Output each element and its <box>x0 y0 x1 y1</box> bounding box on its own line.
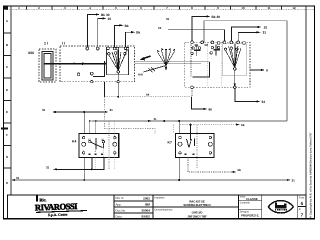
top zone numbers <box>18 6 296 10</box>
svg-text:App.: App. <box>116 203 122 207</box>
mechanical link hatching <box>149 67 156 72</box>
junction bus K4 b <box>95 120 97 122</box>
svg-text:C: C <box>6 65 9 69</box>
K7 feed wire from bus <box>178 121 180 134</box>
wire rotary pin to label 3 <box>115 25 120 47</box>
svg-text:1: 1 <box>95 150 97 153</box>
junction bus K4 a <box>89 120 91 122</box>
svg-text:A: A <box>6 19 9 23</box>
switch lower terminal circle b <box>90 72 93 75</box>
S2 wiper main arm <box>234 44 236 68</box>
arrow top label 4 <box>131 31 135 33</box>
junction wire31 <box>83 111 85 113</box>
svg-text:X06: X06 <box>28 51 34 55</box>
S2 internal L wire <box>193 62 210 77</box>
svg-text:5/6/02: 5/6/02 <box>141 215 150 219</box>
rotary wiper main arm <box>117 50 119 71</box>
S2 internal divider b <box>220 44 222 87</box>
K7 contact v <box>189 139 192 148</box>
K7 coil bar <box>194 139 196 147</box>
S2 internal dotted vertical <box>190 45 192 77</box>
gray return wire long <box>204 21 287 121</box>
S2 top terminal circles <box>191 41 246 45</box>
K4 dotted internal drop a <box>108 122 110 170</box>
indicator bold middle arrow <box>165 51 167 68</box>
S2 bottom node left <box>191 86 194 89</box>
info values column <box>141 197 150 219</box>
svg-text:2002: 2002 <box>143 197 150 201</box>
svg-text:15: 15 <box>108 17 112 21</box>
svg-text:CLASSE: CLASSE <box>246 197 258 201</box>
svg-text:Data: Data <box>116 215 122 219</box>
bold position arrowhead <box>140 57 145 61</box>
connector X06 dashed enclosure <box>39 49 56 82</box>
svg-text:31: 31 <box>16 176 20 180</box>
rotary wiper fan <box>109 50 127 71</box>
svg-text:E: E <box>6 110 8 114</box>
coupling bus line lower <box>135 63 187 65</box>
K4 mounting hole left <box>82 142 86 146</box>
denomination cell text <box>187 211 207 219</box>
K7 mounting hole left <box>178 142 182 146</box>
svg-text:11: 11 <box>267 6 271 10</box>
K4 blade <box>91 142 103 147</box>
K4 bottom pin marks <box>88 154 103 156</box>
svg-text:SCHEMA ELETTRICO: SCHEMA ELETTRICO <box>183 203 211 207</box>
svg-text:a b: a b <box>195 45 199 48</box>
left zone ticks <box>4 33 12 168</box>
junction on bus <box>163 120 165 122</box>
rotary section inner box <box>107 47 129 75</box>
svg-text:K4: K4 <box>72 140 76 144</box>
svg-text:31: 31 <box>46 165 50 169</box>
svg-text:54: 54 <box>262 100 266 104</box>
K7 blade contact <box>187 139 190 148</box>
K7 bottom dotted wire to arrow <box>188 158 233 173</box>
arrow wire 169 <box>53 168 57 170</box>
node under terminal b <box>91 81 93 83</box>
junction bus K7 <box>178 120 180 122</box>
svg-text:31: 31 <box>166 17 170 21</box>
S2 internal bus stub upper <box>185 61 210 63</box>
junction dotted K7 <box>190 124 192 126</box>
svg-text:31: 31 <box>263 31 267 35</box>
title block outline <box>8 195 307 219</box>
left zone letters <box>6 19 9 185</box>
svg-text:© Copyright by R.R. of fa So: © Copyright by R.R. of fa Societa AMNSHN… <box>310 132 313 218</box>
arrow top label 3 <box>120 24 124 26</box>
K4 contact circles <box>89 140 105 142</box>
connector X06 body <box>42 52 53 81</box>
top zone ticks <box>27 6 282 10</box>
svg-text:Bk: Bk <box>125 24 129 28</box>
double arrow wire 31 <box>56 111 105 113</box>
svg-text:BM: BM <box>145 203 150 207</box>
S2 fan inner frame <box>223 44 247 76</box>
svg-text:30004: 30004 <box>141 209 150 213</box>
dotted wire lower run <box>105 96 161 98</box>
wiper output wire <box>117 73 119 82</box>
svg-text:31: 31 <box>154 117 158 121</box>
arrow dotted branch <box>236 124 240 126</box>
K4 socket dashed outline <box>105 97 156 134</box>
svg-text:Folio: Folio <box>299 197 305 200</box>
wire from inner box to terminal b <box>93 61 105 77</box>
rotary wiper pivot <box>117 70 120 73</box>
K4 dotted internal drop b <box>114 122 116 170</box>
approvals cells <box>240 196 260 218</box>
long gray ground bus <box>15 179 287 181</box>
svg-text:Controllo: Controllo <box>240 202 251 205</box>
wire to right label b <box>238 32 257 41</box>
S2 contact group 2 pin label <box>205 44 208 45</box>
arrow right mid <box>261 69 265 71</box>
svg-text:12: 12 <box>292 6 296 10</box>
svg-text:Impianto: Impianto <box>155 196 166 199</box>
rotary contact circles upper arc <box>107 47 129 50</box>
svg-text:X: X <box>266 69 269 73</box>
svg-text:31: 31 <box>110 108 114 112</box>
svg-text:S.p.A. Como: S.p.A. Como <box>48 213 68 218</box>
border frame inner left line <box>10 6 12 195</box>
wire terminal 15 to top label <box>98 19 103 48</box>
title info row lines <box>114 201 306 213</box>
centering mark top-left <box>4 6 9 10</box>
K7 corner terminal circles <box>179 136 212 154</box>
svg-text:86: 86 <box>209 108 213 112</box>
S2 bottom node right <box>234 86 237 89</box>
svg-text:D: D <box>6 88 9 92</box>
svg-text:10: 10 <box>241 6 245 10</box>
wire from wiper node <box>117 82 119 97</box>
svg-text:bk: bk <box>238 168 242 172</box>
wire horizontal upper right <box>168 30 224 41</box>
svg-text:1 l: 1 l <box>44 42 48 46</box>
svg-text:II-III: II-III <box>138 73 143 77</box>
coupling bus line upper <box>135 61 187 63</box>
indicator middle arrowhead <box>165 67 167 71</box>
K4 feed wires from bus <box>90 121 96 134</box>
svg-text:F: F <box>6 133 8 137</box>
junction at feed wire end <box>104 63 106 65</box>
arrow left of wire 31 <box>52 111 56 113</box>
svg-text:31: 31 <box>292 179 296 183</box>
dotted wire step right <box>160 89 192 97</box>
S2 output wire to arrow <box>235 89 257 102</box>
arrow S2 output <box>257 100 261 102</box>
S2 internal divider a <box>206 44 208 87</box>
junction K4 on gray bus <box>83 179 85 181</box>
svg-text:15: 15 <box>158 26 162 30</box>
svg-text:Doc.No.: Doc.No. <box>116 209 127 213</box>
arrow right label a <box>258 26 262 28</box>
switch unit S1 dashed box <box>60 46 135 82</box>
logo lens shape <box>268 201 293 213</box>
S2 contact group 1 <box>191 45 201 57</box>
wire to K4 coil <box>83 112 85 134</box>
wire S2 to right label a <box>231 27 257 41</box>
fan arrowheads <box>157 48 175 53</box>
thick feed wire from X06 <box>44 63 105 65</box>
arrow S2 down output <box>204 108 208 110</box>
svg-text:K7: K7 <box>168 141 172 145</box>
switch unit S2 dashed box <box>185 42 250 87</box>
K4 bottom wire b <box>91 157 93 169</box>
connector X06 inner body <box>44 54 51 79</box>
S2 wiper down arrowhead <box>234 84 236 88</box>
svg-text:Bk: Bk <box>136 31 140 35</box>
S2 rotary fan <box>226 46 242 68</box>
logo locomotive <box>275 203 287 211</box>
S2 internal bus stub lower <box>185 63 201 65</box>
company stamp <box>35 196 87 218</box>
junction below wiper <box>117 96 119 98</box>
wire below S1 <box>104 82 106 97</box>
svg-text:JNF 2WCY 7/8F: JNF 2WCY 7/8F <box>187 215 207 219</box>
arrowhead on feed wire <box>82 62 87 65</box>
svg-text:G: G <box>6 155 9 159</box>
K7 bottom pin marks <box>184 153 194 155</box>
K4 bottom dotted wire c <box>95 157 97 169</box>
K7 mounting hole right <box>208 142 212 146</box>
wire S2 pin to label 30a <box>192 17 207 41</box>
K7 dotted internal drop <box>196 125 198 168</box>
svg-text:Bk 30: Bk 30 <box>212 15 221 19</box>
K7 dotted feed left <box>172 125 174 134</box>
svg-text:6: 6 <box>301 201 304 206</box>
node on box bottom edge <box>117 81 119 83</box>
svg-text:bk: bk <box>241 123 245 127</box>
S2 output down wire <box>191 97 203 109</box>
arrow top label 2 <box>103 17 107 19</box>
folio cell <box>299 197 305 218</box>
arrow K7 dotted <box>233 171 237 173</box>
K4 contact small v <box>102 143 104 149</box>
centering mark left middle <box>1 128 8 130</box>
terminal 15 circle <box>96 47 99 50</box>
K7 feed wire b <box>190 125 192 140</box>
K7 bottom wire to bus <box>178 158 180 181</box>
K4 dotted internal drop c <box>102 143 104 157</box>
dotted branch wire to K7 <box>180 124 236 126</box>
svg-text:B: B <box>6 43 9 47</box>
info labels column <box>116 196 127 219</box>
svg-text:7: 7 <box>301 213 304 218</box>
arrow left gray bus <box>11 179 15 181</box>
junction K7 on gray bus <box>178 179 180 181</box>
arrow right label b <box>257 31 261 33</box>
K4 coil bar <box>95 138 97 150</box>
wire rotary pin to label 4 <box>126 32 132 47</box>
ground wire 169 with arrow <box>57 157 104 169</box>
svg-text:31: 31 <box>42 108 46 112</box>
svg-text:di: di <box>299 208 301 211</box>
relay K4 body <box>79 134 119 158</box>
svg-text:15: 15 <box>264 25 268 29</box>
svg-text:bk: bk <box>146 93 150 97</box>
svg-text:H: H <box>6 181 8 185</box>
position indicator fan arrows <box>158 50 175 65</box>
svg-text:Denominazione: Denominazione <box>155 208 174 211</box>
border frame inner right line <box>305 6 307 219</box>
S2 contact group 2 <box>210 45 220 56</box>
arrow right gray bus <box>287 179 291 181</box>
title block vertical dividers <box>114 195 298 219</box>
arrow top label 1 <box>96 13 100 15</box>
wire terminal 30 to top label <box>87 15 96 48</box>
relay K7 body <box>175 133 214 157</box>
K4 corner terminal circles <box>83 137 117 155</box>
svg-text:PROPERZI E.: PROPERZI E. <box>241 214 260 218</box>
arrow right of wire 31 <box>105 111 109 113</box>
bold position arrow left <box>143 56 151 59</box>
switch lower terminal circle a <box>77 73 80 76</box>
mechanical link line <box>144 66 166 72</box>
project cell text <box>183 199 211 207</box>
terminal 30 circle <box>86 47 89 50</box>
junction on wire 169 <box>91 168 93 170</box>
gray bus mid <box>92 120 287 122</box>
rotary contact circles lower arc <box>108 52 127 55</box>
S2 contact group 1 pin label <box>195 44 198 45</box>
arrowhead on bus <box>148 120 152 122</box>
S2 wiper down wire <box>234 70 236 87</box>
K4 mounting hole right <box>113 142 117 146</box>
K4 bottom wire to bus <box>83 157 85 180</box>
arrow label 30a <box>207 15 211 17</box>
S2 rotary pivot <box>234 68 237 71</box>
wire right edge mid <box>250 69 261 71</box>
svg-text:Dis. N.: Dis. N. <box>116 196 125 200</box>
svg-text:Visto: Visto <box>240 196 246 199</box>
border frame inner top line <box>4 9 315 11</box>
svg-text:l l: l l <box>62 42 65 46</box>
S2 rotary contact circles arc <box>224 47 238 51</box>
junction on feed wire <box>73 63 75 65</box>
